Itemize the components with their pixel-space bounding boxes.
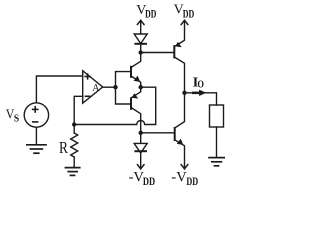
svg-text:O: O <box>197 80 204 91</box>
svg-text:DD: DD <box>145 9 156 21</box>
svg-text:DD: DD <box>143 176 155 188</box>
svg-text:A: A <box>92 83 100 94</box>
svg-text:S: S <box>14 113 20 124</box>
svg-text:-V: -V <box>171 170 187 186</box>
svg-text:DD: DD <box>186 176 198 188</box>
svg-text:DD: DD <box>183 9 195 21</box>
svg-text:R: R <box>59 138 68 157</box>
